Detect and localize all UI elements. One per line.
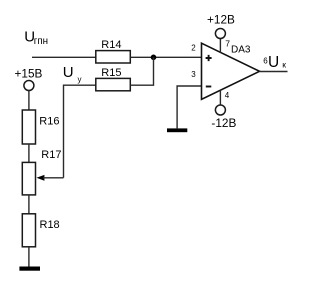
svg-text:R18: R18 xyxy=(40,219,60,231)
power +15В xyxy=(15,66,43,90)
wire op-amp pin 3 to ground xyxy=(177,86,201,128)
wire R14 to op-amp pin 2 xyxy=(130,56,201,58)
wire R15 to junction xyxy=(130,57,153,85)
pin 7 xyxy=(220,38,230,53)
resistor R14 xyxy=(96,39,131,63)
pin 4 xyxy=(220,90,229,105)
ground (bottom left) xyxy=(19,267,40,271)
wire R18 to ground xyxy=(28,247,30,267)
svg-text:гпн: гпн xyxy=(34,36,48,47)
svg-text:R16: R16 xyxy=(39,116,59,128)
svg-text:3: 3 xyxy=(191,70,196,79)
svg-text:y: y xyxy=(78,75,82,84)
svg-text:+12В: +12В xyxy=(207,13,235,27)
resistor R18 xyxy=(22,214,59,247)
node Uy xyxy=(63,64,82,84)
wire Uy corner to R15 xyxy=(64,85,96,178)
svg-text:R17: R17 xyxy=(41,149,61,161)
svg-text:к: к xyxy=(282,60,286,70)
svg-text:2: 2 xyxy=(191,44,196,53)
svg-text:R14: R14 xyxy=(101,39,121,51)
svg-text:7: 7 xyxy=(225,38,230,48)
node Uк output with pin 6 label xyxy=(263,54,286,71)
wire R16 to R17 xyxy=(28,144,30,162)
wire output pin 6 xyxy=(260,71,288,73)
power +12В xyxy=(207,13,235,39)
ground (op-amp inverting input) xyxy=(167,128,187,132)
wire R17 wiper to Uy node xyxy=(43,177,64,179)
node Uгпн xyxy=(24,29,48,48)
potentiometer R17 xyxy=(22,149,61,195)
svg-text:4: 4 xyxy=(225,91,230,100)
junction dot xyxy=(151,55,157,61)
svg-text:+15В: +15В xyxy=(15,66,43,80)
resistor R15 xyxy=(96,67,131,91)
svg-text:R15: R15 xyxy=(101,67,121,79)
svg-text:U: U xyxy=(268,54,279,71)
op-amp U1 DA3 xyxy=(202,43,260,99)
power -12В xyxy=(211,105,236,130)
wire R17 to R18 xyxy=(28,195,30,214)
wire +15В to R16 xyxy=(28,91,30,111)
resistor R16 xyxy=(22,110,59,144)
svg-text:U: U xyxy=(63,64,74,81)
wire input Uгпн to R14 xyxy=(32,56,96,58)
svg-text:-12В: -12В xyxy=(211,116,236,130)
svg-text:DA3: DA3 xyxy=(231,45,251,56)
